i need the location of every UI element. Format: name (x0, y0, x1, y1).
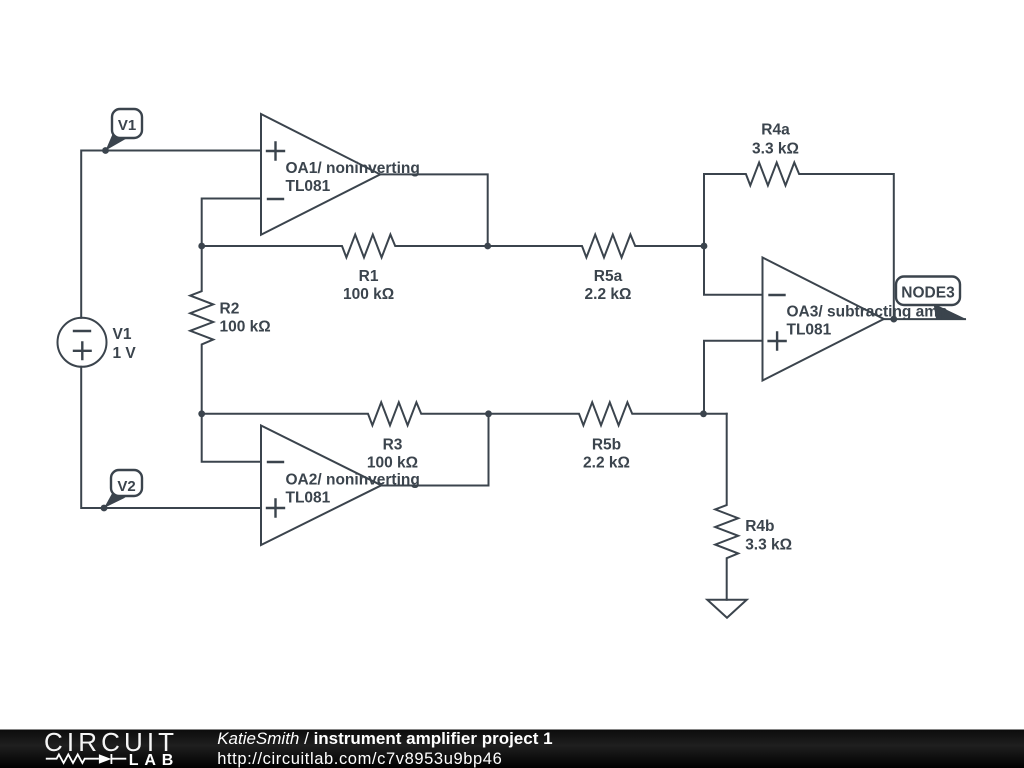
svg-text:V2: V2 (117, 478, 135, 495)
junction node dot OA1 output (484, 243, 491, 250)
resistor R2 body (190, 246, 213, 414)
OA2 - glyph (268, 461, 283, 463)
svg-text:OA2/ noninverting: OA2/ noninverting (286, 472, 420, 489)
wire mid net y=246 R2-top to R1 to OA1-out to R5a to R4a node (202, 235, 704, 258)
svg-text:R4a: R4a (761, 122, 790, 139)
junction node dot R2 top (198, 243, 205, 250)
wire OA2 output (381, 414, 488, 486)
OA3 + glyph (769, 333, 786, 350)
wire OA2 - input feedback (202, 414, 261, 462)
V1 source minus sign (74, 330, 90, 332)
svg-text:R5b: R5b (592, 437, 621, 454)
svg-text:R1: R1 (359, 268, 379, 285)
junction node dot R5b right (700, 410, 707, 417)
footer logo resistor zigzag glyph (46, 754, 127, 764)
wire R4a loop: up, across top with R4a body, down to output (704, 163, 894, 320)
svg-text:http://circuitlab.com/c7v8953u: http://circuitlab.com/c7v8953u9bp46 (217, 750, 502, 768)
svg-text:2.2 kΩ: 2.2 kΩ (583, 455, 630, 472)
svg-text:NODE3: NODE3 (901, 285, 955, 302)
OA3 - glyph (770, 294, 785, 296)
OA1 - glyph (268, 198, 283, 200)
junction node dot NODE3 (890, 316, 897, 323)
svg-text:OA1/ noninverting: OA1/ noninverting (286, 160, 420, 177)
wire lower net y=413.8 with R3 and R5b bodies (202, 402, 727, 425)
wire OA3 output to NODE3 (884, 318, 965, 320)
junction node dot R2 bottom (198, 410, 205, 417)
wire V1 source bottom to V2 node to OA2 + input (81, 367, 261, 508)
svg-text:3.3 kΩ: 3.3 kΩ (745, 537, 792, 554)
footer logo diode glyph (99, 754, 112, 764)
svg-text:TL081: TL081 (286, 490, 331, 507)
op-amp OA2 triangle (261, 426, 381, 546)
svg-text:1 V: 1 V (113, 345, 137, 362)
svg-text:TL081: TL081 (787, 322, 832, 339)
ground symbol (707, 600, 746, 618)
wire OA3 - input (704, 246, 763, 295)
svg-text:R4b: R4b (745, 518, 774, 535)
svg-text:100 kΩ: 100 kΩ (367, 455, 418, 472)
wire OA1 output (380, 174, 488, 246)
svg-text:100 kΩ: 100 kΩ (343, 286, 394, 303)
svg-text:R5a: R5a (594, 268, 623, 285)
svg-text:R3: R3 (383, 437, 403, 454)
flag NODE3 (896, 277, 967, 320)
wire V1 flag to OA1 + input (81, 151, 261, 318)
OA1 + glyph (267, 143, 284, 160)
voltage source V1 circle (58, 318, 107, 367)
junction node dot V1 flag anchor (102, 147, 109, 154)
svg-text:2.2 kΩ: 2.2 kΩ (585, 286, 632, 303)
resistor R4b body and leads (715, 414, 738, 600)
svg-text:OA3/ subtracting amp: OA3/ subtracting amp (787, 304, 948, 321)
wire OA1 feedback (- input) (202, 199, 261, 247)
op-amp OA3 triangle (763, 258, 884, 381)
OA2 + glyph (267, 500, 284, 517)
junction node dot R5a right (701, 243, 708, 250)
junction node dot V2 flag anchor (101, 505, 108, 512)
svg-text:100 kΩ: 100 kΩ (220, 319, 271, 336)
svg-text:V1: V1 (113, 326, 132, 343)
svg-text:3.3 kΩ: 3.3 kΩ (752, 141, 799, 158)
svg-text:LAB: LAB (129, 752, 179, 768)
footer bar (0, 730, 1024, 768)
svg-text:KatieSmith / instrument amplif: KatieSmith / instrument amplifier projec… (217, 729, 552, 748)
junction node dot OA2 output (485, 410, 492, 417)
op-amp OA1 triangle (261, 114, 380, 235)
svg-text:TL081: TL081 (286, 178, 331, 195)
V1 source plus sign (74, 343, 91, 360)
svg-text:V1: V1 (118, 117, 136, 134)
svg-text:R2: R2 (220, 301, 240, 318)
wire OA3 + input (704, 341, 763, 414)
flag V1 (106, 109, 143, 151)
flag V2 (104, 470, 142, 508)
